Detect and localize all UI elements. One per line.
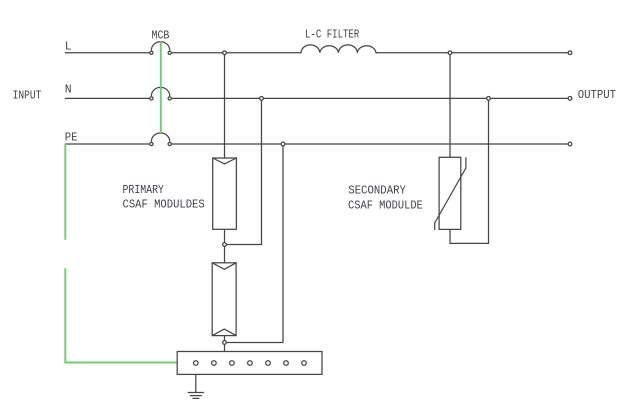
primary CSAF module 2 bottom chevron <box>212 329 236 336</box>
terminal block contact 3 <box>230 361 235 366</box>
terminal block contact 5 <box>266 361 271 366</box>
terminal block contact 4 <box>248 361 253 366</box>
svg-text:PRIMARY: PRIMARY <box>123 184 164 197</box>
inductor L1 (L-C filter coil) <box>301 45 376 53</box>
svg-text:INPUT: INPUT <box>13 89 42 102</box>
terminal block contact 7 <box>302 361 307 366</box>
node on L at primary drop <box>223 51 227 55</box>
svg-text:PE: PE <box>65 131 78 144</box>
svg-text:L-C FILTER: L-C FILTER <box>305 29 359 42</box>
wire secondary module bottom elbow <box>450 98 489 243</box>
breaker MCB pole PE <box>150 133 172 146</box>
wire N from MCB to output <box>172 97 568 99</box>
svg-text:SECONDARY: SECONDARY <box>348 185 406 198</box>
wire from node on PE down <box>282 144 284 343</box>
output terminal L <box>568 51 572 55</box>
terminal block contact 6 <box>284 361 289 366</box>
wire module 2 bottom to terminal block <box>224 336 226 352</box>
breaker MCB pole L <box>150 42 172 55</box>
wire junction below module 1 to N drop <box>225 244 262 246</box>
node junction below primary module 1 <box>223 243 227 247</box>
ground symbol <box>188 393 203 399</box>
svg-text:OUTPUT: OUTPUT <box>578 89 616 102</box>
node on N at secondary drop <box>487 97 491 101</box>
secondary CSAF module varistor stroke <box>435 158 466 230</box>
wire N input segment <box>65 97 149 99</box>
wire L from filter to output <box>376 52 568 54</box>
green PE earth wire horizontal to terminal block <box>65 362 177 364</box>
terminal block body <box>177 352 322 375</box>
terminal block contact 1 <box>194 361 199 366</box>
ground stem wire <box>195 363 197 392</box>
wire from node on N down to junction below primary module 1 <box>261 98 263 244</box>
wire module 1 bottom to module 2 top <box>224 229 226 262</box>
svg-text:CSAF MODULDE: CSAF MODULDE <box>348 199 423 212</box>
secondary CSAF module body <box>439 157 461 229</box>
node on PE at primary drop <box>281 142 285 146</box>
wire from node on L down to primary module 1 <box>224 53 226 158</box>
primary CSAF module 2 top chevron <box>212 263 236 270</box>
svg-text:MCB: MCB <box>152 30 170 43</box>
green PE earth wire upper segment <box>64 144 66 239</box>
wire PE from MCB to output <box>172 143 568 145</box>
wire PE input segment <box>65 143 149 145</box>
wire L from MCB to filter <box>172 52 301 54</box>
node on N at primary drop <box>260 97 264 101</box>
primary CSAF module 1 body <box>213 158 237 229</box>
svg-text:N: N <box>65 84 72 97</box>
green PE earth wire lower segment <box>64 269 66 363</box>
MCB trip bar (green) <box>160 42 162 132</box>
node junction below primary module 2 <box>223 341 227 345</box>
node on L at secondary drop <box>448 51 452 55</box>
wire junction below module 2 to PE drop <box>225 342 284 344</box>
wire L input segment <box>65 52 149 54</box>
svg-text:L: L <box>65 41 72 54</box>
svg-text:CSAF MODULDES: CSAF MODULDES <box>123 198 205 211</box>
primary CSAF module 2 body <box>212 263 236 336</box>
output terminal PE <box>568 142 572 146</box>
terminal block contact 2 <box>212 361 217 366</box>
primary CSAF module 1 chevron <box>213 158 237 164</box>
wire from node on L down to secondary module <box>449 53 451 158</box>
breaker MCB pole N <box>150 87 172 100</box>
output terminal N <box>568 97 572 101</box>
